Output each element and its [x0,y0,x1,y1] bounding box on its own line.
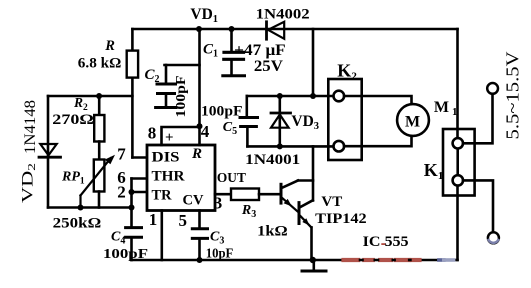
diode VD3 1N4001 [271,96,291,146]
motor M1 circle [397,104,429,136]
wire left branch top [48,95,132,98]
svg-text:1N4002: 1N4002 [256,7,310,23]
node emitter bottom [310,257,316,263]
IC 555 box [147,145,215,211]
wire K1 between contacts [456,149,459,176]
svg-text:1N4148: 1N4148 [22,100,39,154]
svg-text:+: + [165,130,174,146]
svg-text:M: M [405,114,420,131]
transistor Q2 [299,200,313,227]
resistor R 6.8k body [127,51,138,78]
resistor R2 body [94,115,104,142]
svg-text:1N4001: 1N4001 [245,152,300,168]
wire K1 contact1 to battery plus [463,94,493,143]
svg-text:OUT: OUT [217,170,246,185]
wire pin2 stub [132,191,148,194]
wire VD2 vertical [47,96,50,208]
svg-text:CV: CV [183,193,204,209]
wire R3 to base [259,193,279,196]
blue-grey dash light [444,258,454,262]
svg-text:VT: VT [321,194,342,210]
potentiometer RP1 lead top [98,142,101,160]
red dash 3 [380,258,391,262]
wire VCC to VD3 rail [312,29,315,96]
red dash 5 [412,258,420,262]
wire K1 below to bottom rail [456,186,459,260]
wire K2 contact1 to motor [344,96,411,105]
reset plus box pins 8 and 4 [162,127,200,145]
resistor R2 lead [98,96,101,115]
node C3 bottom [197,257,203,263]
terminal battery plus [487,83,498,94]
svg-text:5.5~15.5V: 5.5~15.5V [503,51,523,139]
node pin4 top [197,123,203,129]
node top rail to pin4 branch [196,26,202,32]
svg-text:2: 2 [117,183,126,202]
relay K2 contact 2 [334,141,345,152]
svg-text:IC 555: IC 555 [363,234,409,250]
wire C2 top [165,64,200,67]
capacitor C5 [240,96,258,146]
wire VD3 top rail [247,95,334,98]
potentiometer RP1 lead bottom [98,192,101,208]
transistor Q1 [281,181,313,212]
wire VD3 bottom rail [247,145,334,148]
capacitor C1 47uF [223,29,245,76]
svg-text:DIS: DIS [152,150,180,166]
svg-text:25V: 25V [254,58,284,75]
diode VD2 1N4148 [39,144,61,157]
red dash 4 [396,258,408,262]
resistor R3 body [231,189,259,201]
wire pin3 out [215,193,231,196]
black tick between dashes 2 [375,259,378,262]
wire K1 contact2 to battery minus [463,180,493,232]
wire pin6 stub [132,177,148,180]
svg-text:5: 5 [179,211,188,230]
svg-text:7: 7 [117,145,126,164]
wire bottom rail right [454,259,458,262]
relay K2 contact 1 [334,91,345,102]
relay K2 box [328,79,361,160]
svg-text:1: 1 [149,210,158,229]
wire VCC branch to pin4 [198,29,201,126]
svg-text:270Ω: 270Ω [52,112,94,128]
wire pin1 [161,211,164,261]
capacitor C4 [126,208,142,261]
wire bottom left [48,206,132,209]
wire top rail [132,28,457,31]
svg-text:THR: THR [152,169,185,185]
svg-text:8: 8 [148,124,157,143]
wire K2 contact2 to motor [344,136,411,146]
blue-grey dash dark [439,258,444,262]
svg-text:R: R [104,38,115,54]
wire bottom rail mid [421,259,439,262]
red dash 1 [344,258,359,262]
wire pins 2 and 6 vertical [130,179,133,208]
black tick between dashes 1 [360,259,363,262]
relay K1 contact 2 [453,175,463,185]
svg-text:10pF: 10pF [206,247,234,262]
potentiometer RP1 wiper arrow [81,155,116,208]
ground [302,260,326,271]
wire emitter to bottom rail [310,227,313,260]
node pin2 [129,189,135,195]
svg-text:1kΩ: 1kΩ [257,224,288,240]
node VD3 rail VCC junction [310,93,316,99]
relay K1 box [443,129,475,196]
svg-text:TIP142: TIP142 [315,211,367,227]
capacitor C2 [156,65,176,108]
wire bottom rail left [132,259,344,262]
node bottom-left wire right end [129,205,135,211]
node top rail to C1 [229,26,235,32]
potentiometer RP1 body [94,160,105,192]
wire right vertical from top rail [456,29,459,138]
svg-text:4: 4 [201,122,210,141]
capacitor C3 with pin5 [192,211,207,261]
svg-text:R: R [191,146,202,162]
red mark under IC 555 [381,243,385,245]
wire pin7 stub [132,156,147,159]
diode VD1 1N4002 [267,22,285,39]
svg-text:+47 μF: +47 μF [234,42,286,59]
relay K1 contact 1 [453,138,463,148]
svg-text:250kΩ: 250kΩ [53,216,101,232]
svg-text:100pF: 100pF [103,247,148,262]
node RP1 wiper bottom [78,205,84,211]
svg-text:100pF: 100pF [174,76,189,118]
node R2 top [96,93,102,99]
svg-text:6.8 kΩ: 6.8 kΩ [78,56,122,72]
svg-text:100pF: 100pF [201,104,243,120]
wire collector vertical [312,146,315,200]
black tick between dashes 3 [393,259,395,262]
svg-text:3: 3 [214,194,223,213]
svg-text:TR: TR [152,188,172,204]
red dash 2 [364,258,373,262]
resistor R 6.8k leads [131,29,134,158]
node VD3 bottom [277,143,283,149]
node VD3 top [277,93,283,99]
terminal battery minus [488,232,499,243]
